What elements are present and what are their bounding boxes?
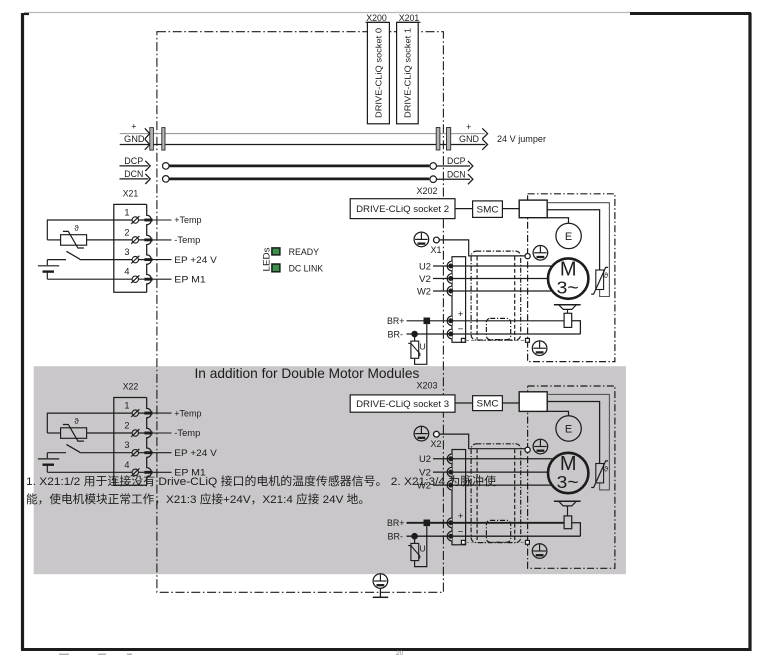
X21 pin2 wire <box>87 239 146 241</box>
strip pin dot row 2 <box>449 276 453 280</box>
gray shield continuation dashed <box>466 339 526 341</box>
dash-dot enclosure around motor 1 <box>528 194 615 362</box>
shield square node on enclosure edge <box>526 338 530 342</box>
X22 pin 4 screw terminal <box>131 468 139 476</box>
SMC box (motor 1) <box>473 201 503 218</box>
svg-text:能，使电机模块正常工作，X21:3 应接+24V，X21:4: 能，使电机模块正常工作，X21:3 应接+24V，X21:4 应接 24V 地。 <box>26 492 370 506</box>
wire socket3 to SMC <box>455 402 473 404</box>
svg-text:BR-: BR- <box>388 329 404 339</box>
DCN left chevron <box>145 174 150 184</box>
encoder interface box (motor 1) <box>519 200 547 218</box>
X22 pin 1 lead line <box>153 412 172 414</box>
X21 pin 2 contact bar <box>144 238 152 241</box>
svg-text:-Temp: -Temp <box>174 235 200 245</box>
X21 pin 1 lead line <box>153 219 172 221</box>
earth bottom bar <box>373 596 389 598</box>
svg-text:DRIVE-CLiQ socket 2: DRIVE-CLiQ socket 2 <box>356 204 449 214</box>
DRIVE-CLiQ socket 1 box <box>397 22 419 123</box>
svg-text:DCP: DCP <box>124 156 143 166</box>
X21 pin 4 screw terminal <box>131 275 139 283</box>
svg-text:4: 4 <box>124 267 129 277</box>
svg-text:SMC: SMC <box>477 399 499 409</box>
svg-text:20: 20 <box>396 650 404 656</box>
connector X21 body <box>114 204 147 292</box>
svg-text:V2: V2 <box>419 274 431 284</box>
svg-text:ϑ: ϑ <box>74 417 79 426</box>
wire socket2 to SMC <box>455 208 473 210</box>
svg-text:READY: READY <box>289 247 319 257</box>
wire SMC to encoder interface <box>502 208 519 210</box>
PE terminal at motor 1 top <box>533 246 548 261</box>
DCP right node circle <box>430 163 437 170</box>
X201 underline <box>397 21 421 23</box>
strip pin dot row 3 <box>449 289 453 293</box>
shield clamp square on strip <box>461 338 465 342</box>
svg-text:DRIVE-CLiQ socket 0: DRIVE-CLiQ socket 0 <box>375 27 384 118</box>
DCN busbar (thick) <box>169 178 429 181</box>
X22 pin 1 contact bar <box>144 412 152 415</box>
X22 pin 4 lead line <box>153 471 172 473</box>
module frame earth symbol on bottom border <box>373 574 388 589</box>
X22 pin 3 contact bar <box>144 451 152 454</box>
svg-text:+: + <box>458 309 464 320</box>
module boundary dash-dot rectangle <box>157 32 444 593</box>
svg-text:3~: 3~ <box>557 472 579 492</box>
varistor across BR+ / BR- (motor 1) <box>408 323 427 364</box>
svg-text:EP +24 V: EP +24 V <box>174 255 217 265</box>
junction dot on BR- wire <box>412 534 417 539</box>
page frame: right thick bar <box>748 13 751 651</box>
X22 pin 2 lead line <box>153 432 172 434</box>
24V jumper bar 1 <box>150 128 154 151</box>
svg-text:BR+: BR+ <box>387 518 405 528</box>
svg-text:DCN: DCN <box>447 169 466 179</box>
holding brake (motor 2) <box>554 501 581 529</box>
svg-text:E: E <box>565 231 572 243</box>
wire X1 shield to cable <box>439 240 525 256</box>
encoder interface box (motor 2) <box>519 392 547 412</box>
motor terminal strip (motor 2) <box>452 450 466 545</box>
svg-text:EP M1: EP M1 <box>174 274 206 284</box>
gray shield continuation dashed <box>466 541 526 543</box>
GND right chevron bottom <box>482 139 487 150</box>
temperature sensor (KTY) at X21 <box>61 231 87 248</box>
DRIVE-CLiQ socket 0 box <box>367 22 389 123</box>
24V jumper bar 3 <box>436 128 440 151</box>
strip pin dot row 1 <box>449 457 453 461</box>
svg-text:+Temp: +Temp <box>174 215 201 225</box>
X21 pin 3 contact bar <box>144 258 152 261</box>
svg-text:EP +24 V: EP +24 V <box>174 448 217 458</box>
BR- wire <box>407 333 581 335</box>
cable inner conductor left <box>476 257 478 340</box>
X22 pin 3 screw terminal <box>131 449 139 457</box>
SMC box (motor 2) <box>473 396 503 411</box>
svg-text:DRIVE-CLiQ socket 1: DRIVE-CLiQ socket 1 <box>404 27 413 118</box>
svg-text:X2: X2 <box>431 439 442 449</box>
svg-text:3: 3 <box>124 440 129 450</box>
PE terminal X2 area <box>414 426 429 441</box>
encoder E circle (motor 2) <box>556 416 581 441</box>
svg-text:ϑ: ϑ <box>74 224 79 233</box>
X22 pin2 wire <box>87 432 146 434</box>
encoder E circle (motor 1) <box>556 223 581 248</box>
X21 pin 3 lead line <box>153 259 172 261</box>
svg-text:X201: X201 <box>399 13 420 23</box>
DCN right chevron <box>468 174 473 184</box>
switch (EP enable) at X22 <box>47 444 80 452</box>
wire brake coil to BR- return <box>572 321 581 334</box>
V2 wire to motor <box>433 471 548 473</box>
X1 shield terminal circle <box>434 237 440 243</box>
page frame: top thin gray line <box>24 12 630 14</box>
PE terminal at motor 2 bottom <box>532 544 547 559</box>
svg-text:In addition for Double Motor M: In addition for Double Motor Modules <box>195 365 420 381</box>
svg-text:GND: GND <box>124 134 145 144</box>
X22 pin 4 contact bar <box>144 471 152 474</box>
svg-text:U: U <box>420 544 426 554</box>
page frame: bottom thick bar <box>21 648 752 651</box>
24V source at X22 <box>38 453 59 473</box>
DC LINK LED (green) <box>272 264 280 272</box>
motor thermistor (motor 1) <box>591 267 608 294</box>
cable inner conductor right <box>514 449 516 542</box>
svg-text:1. X21:1/2 用于连接没有 Drive-CLiQ 接: 1. X21:1/2 用于连接没有 Drive-CLiQ 接口的电机的温度传感器… <box>26 474 496 488</box>
svg-text:+: + <box>458 511 464 522</box>
X21 pin 1 screw terminal <box>131 216 139 224</box>
svg-text:W2: W2 <box>417 286 431 296</box>
svg-text:+: + <box>466 122 471 132</box>
X21 pin4 wire <box>47 278 146 280</box>
scan artifact marks below bottom border <box>59 653 69 655</box>
DRIVE-CLiQ socket 2 box <box>350 199 455 219</box>
svg-text:+Temp: +Temp <box>174 408 201 418</box>
X22 pin 1 screw terminal <box>131 409 139 417</box>
shield node circle (top) <box>525 447 530 452</box>
motor M 1 circle <box>548 258 588 298</box>
DCN lead-in line left <box>120 178 149 180</box>
wire X22:1 down-left to thermistor <box>46 413 48 433</box>
page frame: left thick bar <box>21 13 24 650</box>
X21 pin1 wire <box>47 219 146 221</box>
PE terminal at motor 2 top <box>533 439 548 454</box>
X22 pin1 wire <box>47 412 146 414</box>
X21 pin 2 lead line <box>153 239 172 241</box>
strip pin dot row 4 <box>449 319 453 323</box>
dash-dot enclosure around motor 2 <box>528 386 615 568</box>
svg-text:LEDs: LEDs <box>262 247 272 272</box>
power cable shield outline (motor 2) <box>471 444 521 543</box>
svg-text:1: 1 <box>124 401 129 411</box>
svg-text:1: 1 <box>124 208 129 218</box>
svg-text:DCN: DCN <box>124 169 143 179</box>
shield node circle (top) <box>525 254 530 259</box>
DCP left node circle <box>163 163 170 170</box>
svg-text:BR-: BR- <box>388 532 404 542</box>
X21 pin 1 contact bar <box>144 219 152 222</box>
svg-text:DC LINK: DC LINK <box>289 263 324 273</box>
connector X22 body <box>114 398 147 486</box>
svg-text:X1: X1 <box>431 245 442 255</box>
motor M 2 circle <box>548 453 588 493</box>
svg-text:4: 4 <box>124 460 129 470</box>
svg-text:3: 3 <box>124 247 129 257</box>
svg-text:X22: X22 <box>123 381 139 391</box>
U2 wire to motor <box>433 265 553 267</box>
page frame: top-left tick <box>24 13 29 15</box>
X22 pin 2 contact bar <box>144 432 152 435</box>
svg-text:X21: X21 <box>123 188 139 198</box>
X21 pin 3 screw terminal <box>131 256 139 264</box>
PE terminal at motor 1 bottom <box>532 341 547 356</box>
W2 wire to motor <box>433 484 552 486</box>
svg-text:U2: U2 <box>419 454 431 464</box>
W2 wire to motor <box>433 290 552 292</box>
strip pin dot row 5 <box>449 332 453 336</box>
GND left chevron top <box>145 128 150 139</box>
svg-text:X203: X203 <box>417 380 438 390</box>
junction square on BR+ wire <box>424 318 429 323</box>
wire X2 shield to cable <box>439 434 525 449</box>
svg-text:2: 2 <box>124 421 129 431</box>
X22 pin 3 lead line <box>153 452 172 454</box>
BR- wire <box>407 535 581 537</box>
GND right chevron top <box>482 128 487 139</box>
BR+ wire <box>407 320 565 322</box>
strip pin dot row 3 <box>449 483 453 487</box>
strip pin dot row 4 <box>449 521 453 525</box>
wire brake coil to BR- return <box>572 523 581 536</box>
BR+ wire <box>407 522 565 524</box>
svg-text:X200: X200 <box>366 13 387 23</box>
brake pair cable loop <box>486 318 510 339</box>
X21 pin 4 contact bar <box>144 278 152 281</box>
DRIVE-CLiQ socket 3 box <box>350 395 455 412</box>
DCP right chevron <box>468 161 473 171</box>
svg-text:2: 2 <box>124 227 129 237</box>
sensor wire (gray) to motor thermistor <box>547 394 609 490</box>
switch (EP enable) at X21 <box>47 251 80 259</box>
sensor wire (gray) to motor thermistor <box>547 203 609 297</box>
sensor wire (black) to motor thermistor <box>547 402 599 464</box>
X22 pin4 wire <box>47 471 146 473</box>
DCP lead-out line right <box>437 165 471 167</box>
page frame: top right thick segment <box>630 12 751 15</box>
GND left chevron bottom <box>145 139 150 150</box>
wire SMC to encoder interface <box>502 402 519 404</box>
U2 wire to motor <box>433 458 553 460</box>
DCN right node circle <box>430 176 437 183</box>
strip pin dot row 5 <box>449 534 453 538</box>
shield clamp square on strip <box>461 540 465 544</box>
V2 wire to motor <box>433 278 548 280</box>
cable inner conductor left <box>476 449 478 542</box>
varistor across BR+ / BR- (motor 2) <box>408 525 427 566</box>
svg-text:3~: 3~ <box>557 277 579 297</box>
DCP busbar (thick) <box>169 165 429 168</box>
24V bus top line (gray) <box>120 133 485 135</box>
gray background of Double Motor Module section <box>34 366 626 574</box>
X22 pin3 wire <box>80 452 146 454</box>
24V jumper bar 4 <box>447 128 451 151</box>
wire interface box to encoder E <box>547 218 568 223</box>
earth stem through border <box>379 588 381 597</box>
wire X21:1 down-left to thermistor <box>46 220 48 240</box>
cable inner conductor right <box>514 257 516 340</box>
svg-text:BR+: BR+ <box>387 316 405 326</box>
svg-text:ϑ: ϑ <box>604 271 609 280</box>
svg-text:U2: U2 <box>419 261 431 271</box>
DCN left node circle <box>163 176 170 183</box>
shield square node on enclosure edge <box>526 540 530 544</box>
24V source at X21 <box>38 260 59 280</box>
power cable shield outline (motor 1) <box>471 251 521 340</box>
temperature sensor (KTY) at X22 <box>61 425 87 442</box>
sensor wire (black) to motor thermistor <box>547 210 599 270</box>
svg-text:DRIVE-CLiQ socket 3: DRIVE-CLiQ socket 3 <box>356 399 449 409</box>
motor terminal strip (motor 1) <box>452 257 466 343</box>
X21 pin 4 lead line <box>153 278 172 280</box>
junction dot on BR- wire <box>412 331 417 336</box>
X2 shield terminal circle <box>434 431 440 437</box>
X21 pin 2 screw terminal <box>131 236 139 244</box>
svg-text:DCP: DCP <box>447 156 466 166</box>
DCN lead-out line right <box>437 178 471 180</box>
DCP lead-in line left <box>120 165 149 167</box>
svg-text:E: E <box>565 423 572 435</box>
svg-text:24 V jumper: 24 V jumper <box>497 134 547 145</box>
svg-text:GND: GND <box>459 134 479 144</box>
X21 pin3 wire <box>80 259 146 261</box>
PE terminal X1 area <box>414 232 429 247</box>
svg-text:SMC: SMC <box>477 205 499 215</box>
junction square on BR+ wire <box>424 520 429 525</box>
wire interface box to encoder E <box>547 411 568 415</box>
X200 underline <box>366 21 388 23</box>
svg-text:-Temp: -Temp <box>174 428 200 438</box>
DCP left chevron <box>145 161 150 171</box>
READY LED (green) <box>272 248 280 255</box>
svg-text:+: + <box>131 121 136 131</box>
24V jumper bar 2 <box>162 128 165 151</box>
strip pin dot row 2 <box>449 470 453 474</box>
strip pin dot row 1 <box>449 264 453 268</box>
svg-text:X202: X202 <box>417 186 438 196</box>
24V bus bottom line <box>120 144 486 146</box>
holding brake (motor 1) <box>554 305 581 328</box>
brake pair cable loop <box>486 520 510 542</box>
X22 pin 2 screw terminal <box>131 429 139 437</box>
svg-text:U: U <box>420 341 426 351</box>
motor thermistor (motor 2) <box>591 461 608 488</box>
